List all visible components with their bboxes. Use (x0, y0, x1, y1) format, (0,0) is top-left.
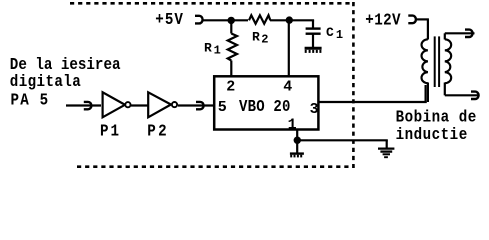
svg-text:1: 1 (214, 43, 221, 57)
svg-text:2: 2 (261, 33, 268, 47)
svg-text:C: C (326, 25, 334, 40)
svg-text:4: 4 (283, 78, 292, 95)
svg-text:+12V: +12V (365, 10, 401, 29)
svg-text:R: R (252, 29, 260, 44)
svg-text:5: 5 (218, 99, 227, 116)
svg-text:digitala: digitala (10, 72, 81, 91)
svg-text:+5V: +5V (155, 10, 184, 29)
svg-text:inductie: inductie (396, 125, 468, 144)
svg-text:VBO 20: VBO 20 (239, 97, 291, 116)
svg-text:1: 1 (336, 28, 343, 42)
svg-text:2: 2 (226, 78, 235, 95)
svg-text:PA 5: PA 5 (11, 90, 50, 109)
svg-text:P2: P2 (147, 122, 169, 141)
svg-text:1: 1 (288, 117, 297, 134)
svg-text:3: 3 (310, 101, 319, 118)
svg-text:P1: P1 (100, 121, 121, 140)
svg-text:R: R (204, 41, 212, 56)
